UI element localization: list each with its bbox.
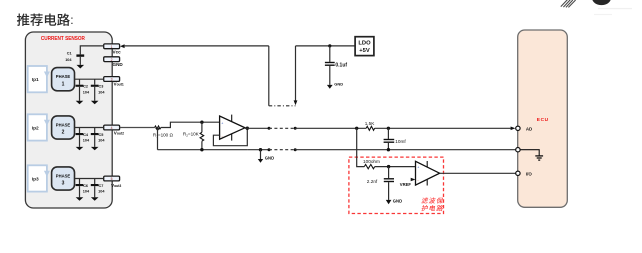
wire phase3 to pin 5 bbox=[75, 178, 104, 180]
svg-text:GND: GND bbox=[265, 156, 274, 161]
resistor 100ohm bbox=[363, 159, 380, 169]
wire pin4 to R1 bbox=[120, 127, 155, 129]
red label char 路 bbox=[436, 205, 444, 211]
capacitor 0.1uf bbox=[325, 46, 348, 85]
pin 1 Vcc bbox=[104, 44, 121, 55]
svg-text:Vcc: Vcc bbox=[113, 49, 122, 54]
wire phase2 to pin 4 bbox=[75, 127, 104, 129]
ground GND stub bbox=[258, 150, 274, 163]
node U1 output bbox=[246, 127, 249, 130]
op-amp U1 bbox=[220, 115, 245, 141]
svg-text:Vout3: Vout3 bbox=[111, 183, 121, 188]
wire R1 node down to bottom rail bbox=[157, 128, 159, 150]
title char 荐 bbox=[30, 13, 43, 25]
svg-text:Ip3: Ip3 bbox=[32, 176, 39, 182]
svg-text:Ip1: Ip1 bbox=[32, 77, 39, 83]
capacitor C4 bbox=[76, 128, 90, 147]
svg-text:104: 104 bbox=[98, 90, 105, 94]
capacitor C7 bbox=[91, 179, 106, 198]
wire to LDO bbox=[296, 45, 356, 47]
net VREF arrow into op-amp bbox=[400, 178, 416, 187]
red label char 保 bbox=[436, 197, 444, 203]
svg-text:PHASE: PHASE bbox=[56, 123, 71, 128]
primary input Ip2 bbox=[28, 114, 50, 140]
resistor 1.5K bbox=[365, 121, 376, 130]
wire pin1 to C1 bbox=[80, 46, 103, 55]
svg-text:C7: C7 bbox=[99, 184, 104, 188]
wire GND rail bbox=[247, 149, 269, 151]
svg-text:3: 3 bbox=[111, 78, 113, 82]
node GND branch bbox=[259, 148, 262, 151]
title char 推 bbox=[17, 13, 30, 25]
capacitor C2 bbox=[76, 79, 90, 101]
wire feedback loop U1 bbox=[213, 128, 247, 146]
svg-text:LDO: LDO bbox=[358, 41, 371, 47]
svg-text:+5V: +5V bbox=[359, 48, 370, 54]
wire break dash-dot bbox=[269, 105, 296, 107]
capacitor 10mf bbox=[384, 128, 407, 149]
svg-text:PHASE: PHASE bbox=[56, 74, 71, 79]
wire tap down into filter bbox=[357, 128, 365, 166]
capacitor 2.2nf bbox=[367, 167, 394, 200]
ECU block bbox=[518, 30, 568, 207]
svg-text:PHASE: PHASE bbox=[56, 174, 71, 179]
wire R1 to op-amp input with step bbox=[161, 122, 220, 127]
resistor R1 100 ohm bbox=[153, 126, 174, 138]
pin 4 Vout2 bbox=[104, 125, 124, 135]
title char 路 bbox=[57, 13, 70, 25]
wire U1 output rail bbox=[245, 127, 269, 129]
svg-text:C5: C5 bbox=[99, 133, 104, 137]
node 10mf tap bbox=[387, 127, 390, 130]
wire 100ohm to op-amp bbox=[375, 166, 416, 168]
capacitor C1 bbox=[65, 52, 84, 65]
svg-text:0.1uf: 0.1uf bbox=[335, 62, 347, 68]
svg-text:C6: C6 bbox=[83, 184, 88, 188]
svg-text:104: 104 bbox=[65, 58, 72, 62]
logo remnant faint text smudges bbox=[598, 8, 632, 9]
logo remnant dark ellipse top-right bbox=[592, 0, 611, 5]
terminal I/O bbox=[516, 171, 533, 176]
svg-text:5: 5 bbox=[111, 177, 113, 181]
logo remnant hatch lines top-right bbox=[561, 0, 576, 7]
svg-text:C2: C2 bbox=[83, 85, 88, 89]
svg-text:3: 3 bbox=[62, 181, 65, 187]
svg-text:104: 104 bbox=[98, 190, 105, 194]
svg-text:4: 4 bbox=[111, 126, 113, 130]
svg-text:Vout2: Vout2 bbox=[114, 131, 124, 136]
ground for C5 bbox=[91, 147, 99, 150]
svg-text::: : bbox=[70, 13, 73, 27]
capacitor C5 bbox=[91, 128, 106, 147]
svg-text:Ip2: Ip2 bbox=[32, 125, 39, 131]
capacitor C3 bbox=[91, 79, 106, 101]
node R2 bottom bbox=[200, 148, 203, 151]
node junction 0.1uf tap bbox=[328, 44, 331, 47]
primary input Ip3 bbox=[28, 165, 50, 191]
pin 5 Vout3 bbox=[104, 176, 122, 188]
red label char 滤 bbox=[421, 197, 429, 203]
red label char 电 bbox=[429, 205, 436, 211]
svg-text:GND: GND bbox=[334, 81, 343, 86]
sensor channel PHASE 2 bbox=[52, 116, 75, 139]
svg-text:C1: C1 bbox=[67, 52, 72, 56]
svg-text:C3: C3 bbox=[99, 85, 104, 89]
svg-text:Vout1: Vout1 bbox=[114, 82, 124, 87]
svg-text:AD: AD bbox=[526, 127, 532, 132]
ground for C4 bbox=[76, 147, 84, 150]
svg-text:104: 104 bbox=[98, 139, 105, 143]
svg-text:GND: GND bbox=[113, 62, 124, 67]
terminal GND bbox=[516, 148, 520, 152]
sensor channel PHASE 3 bbox=[52, 167, 75, 190]
current sensor block outline bbox=[25, 32, 112, 208]
wire phase1 to pin 3 bbox=[75, 78, 104, 80]
svg-text:2.2nf: 2.2nf bbox=[367, 179, 378, 184]
svg-text:+: + bbox=[221, 121, 223, 125]
ground for 2.2nf bbox=[386, 200, 392, 204]
svg-text:2: 2 bbox=[62, 130, 65, 136]
pin 2 GND bbox=[104, 57, 124, 67]
wire U3 output to ECU I/O bbox=[440, 172, 516, 174]
svg-text:10mf: 10mf bbox=[395, 139, 406, 144]
arrow into pin1 Vcc bbox=[120, 44, 125, 48]
svg-text:ECU: ECU bbox=[537, 117, 549, 123]
ground for C3 bbox=[91, 101, 99, 104]
svg-text:VREF: VREF bbox=[400, 182, 412, 187]
ground for C2 bbox=[76, 101, 84, 104]
svg-text:104: 104 bbox=[83, 139, 90, 143]
primary input Ip1 bbox=[28, 66, 50, 92]
resistor R2 10K bbox=[183, 122, 204, 150]
capacitor C6 bbox=[76, 179, 90, 198]
svg-text:+: + bbox=[417, 166, 419, 170]
node R2 top bbox=[200, 121, 203, 124]
svg-text:CURRENT SENSOR: CURRENT SENSOR bbox=[41, 36, 85, 42]
wire from LDO down with arrow bbox=[295, 46, 297, 101]
svg-text:1: 1 bbox=[62, 81, 65, 87]
svg-text:104: 104 bbox=[83, 190, 90, 194]
red label char 波 bbox=[428, 197, 435, 203]
node tap to filter box bbox=[355, 127, 358, 130]
ground for 0.1uf bbox=[327, 85, 333, 89]
ground inside ECU bbox=[520, 150, 543, 160]
regulator U2 LDO +5V bbox=[355, 37, 374, 56]
title char 电 bbox=[45, 13, 56, 25]
svg-text:104: 104 bbox=[83, 90, 90, 94]
pin 3 Vout1 bbox=[104, 77, 124, 87]
node 2.2nf tap bbox=[387, 165, 390, 168]
ground for C7 bbox=[91, 197, 99, 200]
svg-text:100ohm: 100ohm bbox=[363, 159, 380, 164]
svg-text:1.5K: 1.5K bbox=[365, 121, 376, 126]
wire bottom rail bbox=[158, 149, 248, 151]
sensor channel PHASE 1 bbox=[52, 68, 75, 91]
ground for C1 bbox=[77, 65, 85, 69]
arrow into ECU AD bbox=[511, 127, 516, 131]
terminal AD bbox=[516, 126, 533, 131]
node 10mf bottom bbox=[387, 148, 390, 151]
red label char 护 bbox=[421, 205, 428, 211]
ground for C6 bbox=[76, 197, 84, 200]
filter box red dashed bbox=[349, 157, 444, 213]
wire Vcc net from LDO to sensor bbox=[124, 45, 269, 47]
svg-text:I/O: I/O bbox=[526, 172, 532, 177]
svg-text:1: 1 bbox=[111, 45, 113, 49]
op-amp U3 bbox=[416, 161, 440, 186]
svg-text:GND: GND bbox=[393, 199, 402, 204]
